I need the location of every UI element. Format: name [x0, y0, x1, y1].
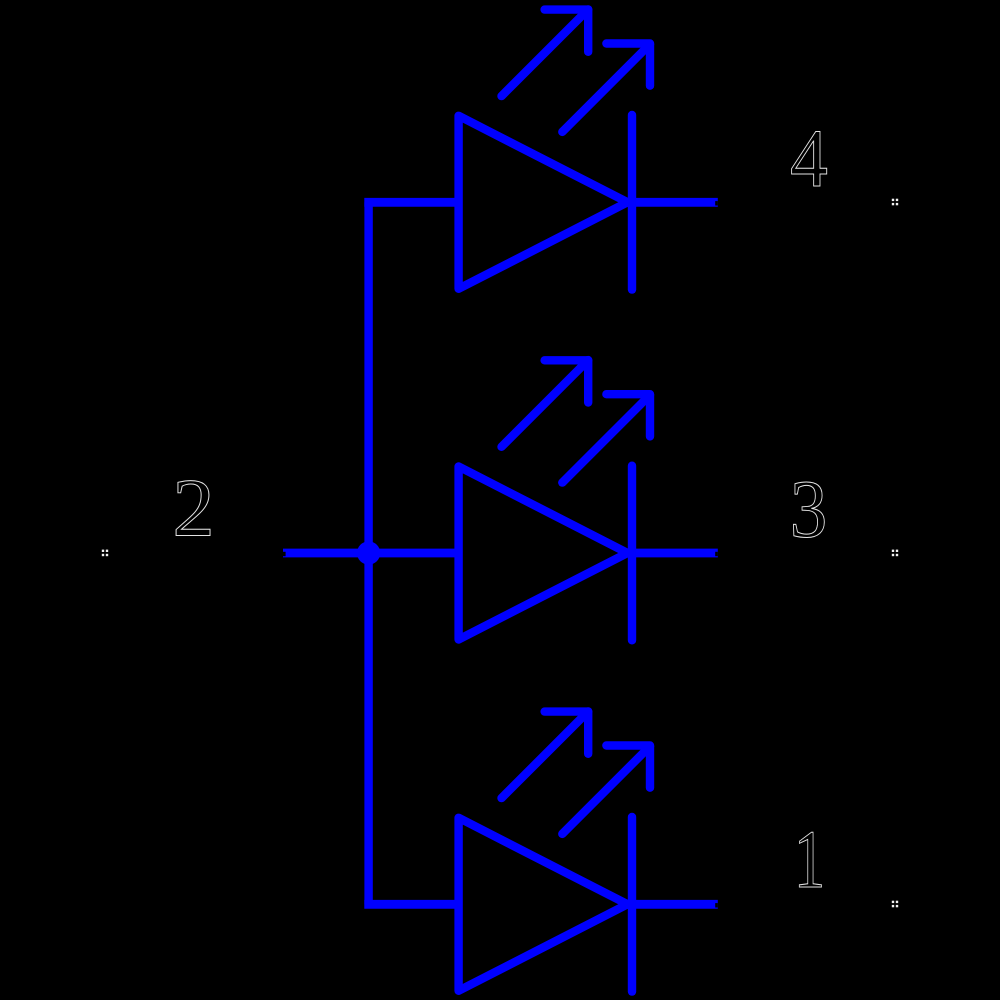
LED bottom cathode bar	[628, 817, 636, 992]
pin 1 wire open-end notch	[715, 903, 718, 907]
LED bottom light arrow 2 shaft	[562, 746, 650, 834]
pin 2 wire open-end notch	[283, 552, 286, 556]
LED middle light arrow 1 head	[545, 360, 589, 402]
pin 1 end marker	[892, 901, 898, 908]
LED bottom (cathode pin 1)	[459, 711, 718, 991]
wire: bottom LED anode wire	[364, 900, 462, 909]
LED middle triangle	[459, 467, 628, 640]
wire: top LED anode wire	[364, 198, 462, 207]
wire: pin 4 cathode wire	[621, 198, 718, 207]
LED top light arrow 2 shaft	[562, 44, 650, 132]
LED bottom light arrow 1 head	[545, 712, 589, 754]
svg-text:1: 1	[794, 813, 826, 905]
pin 4 wire open-end notch	[715, 201, 718, 205]
pin 3 wire open-end notch	[715, 552, 718, 556]
wire: pin 2 input wire	[283, 549, 462, 558]
LED top light arrow 2 head	[606, 44, 650, 86]
LED middle (cathode pin 3)	[459, 360, 718, 640]
wire: pin 1 cathode wire	[621, 900, 718, 909]
LED middle light arrow 1 shaft	[502, 360, 589, 447]
LED bottom light arrow 2 head	[606, 746, 650, 788]
pin 4 end marker	[892, 199, 898, 206]
svg-text:2: 2	[172, 462, 214, 554]
LED bottom triangle	[459, 818, 628, 991]
svg-text:3: 3	[790, 464, 827, 555]
LED top triangle	[459, 116, 628, 289]
LED middle cathode bar	[628, 466, 636, 641]
LED top light arrow 1 shaft	[502, 9, 589, 96]
LED middle light arrow 2 head	[606, 394, 650, 436]
wire: vertical bus joining LED anodes	[364, 202, 372, 904]
LED bottom light arrow 1 shaft	[502, 711, 589, 798]
svg-text:4: 4	[790, 113, 828, 205]
LED top (cathode pin 4)	[459, 9, 718, 289]
junction dot on node 2 bus	[357, 541, 380, 564]
LED top cathode bar	[628, 115, 636, 290]
wire: pin 3 cathode wire	[621, 549, 718, 558]
pin 3 end marker	[892, 550, 898, 557]
LED top light arrow 1 head	[545, 10, 589, 52]
LED middle light arrow 2 shaft	[562, 395, 650, 483]
pin 2 end marker	[102, 550, 108, 557]
